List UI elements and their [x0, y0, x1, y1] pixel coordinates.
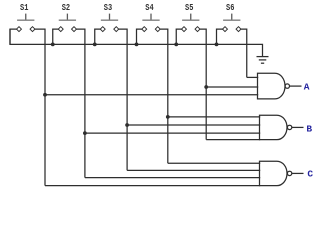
wire: S3 right contact down	[116, 29, 127, 170]
svg-text:S4: S4	[145, 3, 154, 13]
svg-text:S1: S1	[20, 3, 29, 13]
junction dot 1	[43, 93, 47, 97]
svg-text:B: B	[306, 123, 312, 134]
switch S3	[101, 3, 118, 20]
wire: S3 to gate B pin2	[127, 124, 260, 126]
wire: S2 right contact down	[74, 29, 85, 178]
contact: S2 right	[72, 27, 77, 32]
NAND gate U-C	[260, 161, 292, 185]
contact: S6 left	[223, 27, 228, 32]
junction dot 4	[125, 123, 129, 127]
wire: S1 left contact to bus	[10, 29, 19, 44]
contact: S4 left	[142, 27, 147, 32]
wire: common ground bus	[10, 29, 263, 56]
svg-text:S5: S5	[185, 3, 193, 13]
wire: S2 to gate C pin3	[85, 177, 260, 179]
junction dot 8	[135, 43, 139, 47]
wire: S1 right contact down	[33, 29, 46, 186]
svg-text:S2: S2	[62, 3, 70, 13]
junction dot 3	[166, 115, 170, 119]
contact: S3 right	[114, 27, 119, 32]
svg-text:S6: S6	[226, 3, 234, 13]
contact: S2 left	[58, 27, 63, 32]
NAND gate U-B	[260, 115, 292, 139]
wire: S5 to gate A pin2	[206, 86, 258, 88]
wire: S6 right contact down	[239, 29, 247, 77]
svg-text:C: C	[307, 169, 313, 180]
wire: gate C output	[292, 172, 304, 174]
switch S2	[59, 3, 76, 20]
contact: S4 right	[155, 27, 160, 32]
junction dot 10	[215, 43, 219, 47]
wire: S5 left contact to bus	[176, 29, 184, 44]
wire: S4 right contact down	[158, 29, 168, 163]
wire: gate B output	[292, 126, 304, 128]
junction dot 5	[83, 131, 87, 135]
switch S4	[142, 3, 159, 20]
wire: S2 to gate B pin3	[85, 132, 260, 134]
wire: S6 left contact to bus	[217, 29, 226, 44]
switch S5	[182, 3, 199, 20]
wire: S5 right contact down	[198, 29, 207, 140]
wire: gate A output	[290, 85, 302, 87]
wire: S5 to gate B pin4	[206, 139, 260, 141]
wire: S1 to gate A pin3	[45, 94, 258, 96]
wire: S4 left contact to bus	[137, 29, 145, 44]
junction dot 6	[51, 43, 55, 47]
contact: S5 right	[195, 27, 200, 32]
switch S6	[223, 3, 240, 20]
svg-text:A: A	[304, 81, 310, 92]
wire: S3 left contact to bus	[95, 29, 103, 44]
wire: S3 to gate C pin2	[127, 169, 260, 171]
wire: S4 to gate B pin1	[168, 116, 260, 118]
contact: S6 right	[236, 27, 241, 32]
contact: S3 left	[100, 27, 105, 32]
wire: S4 to gate C pin1	[168, 162, 260, 164]
junction dot 7	[93, 43, 97, 47]
wire: S1 to gate C pin4	[45, 185, 260, 187]
wire: S2 left contact to bus	[53, 29, 61, 44]
switch S1	[17, 3, 34, 20]
contact: S1 left	[17, 27, 22, 32]
junction dot 9	[174, 43, 178, 47]
contact: S5 left	[182, 27, 187, 32]
ground	[257, 57, 269, 64]
contact: S1 right	[30, 27, 35, 32]
wire: S6 to gate A pin1	[247, 76, 258, 78]
NAND gate U-A	[258, 73, 290, 99]
svg-text:S3: S3	[104, 3, 112, 13]
junction dot 2	[204, 85, 208, 89]
